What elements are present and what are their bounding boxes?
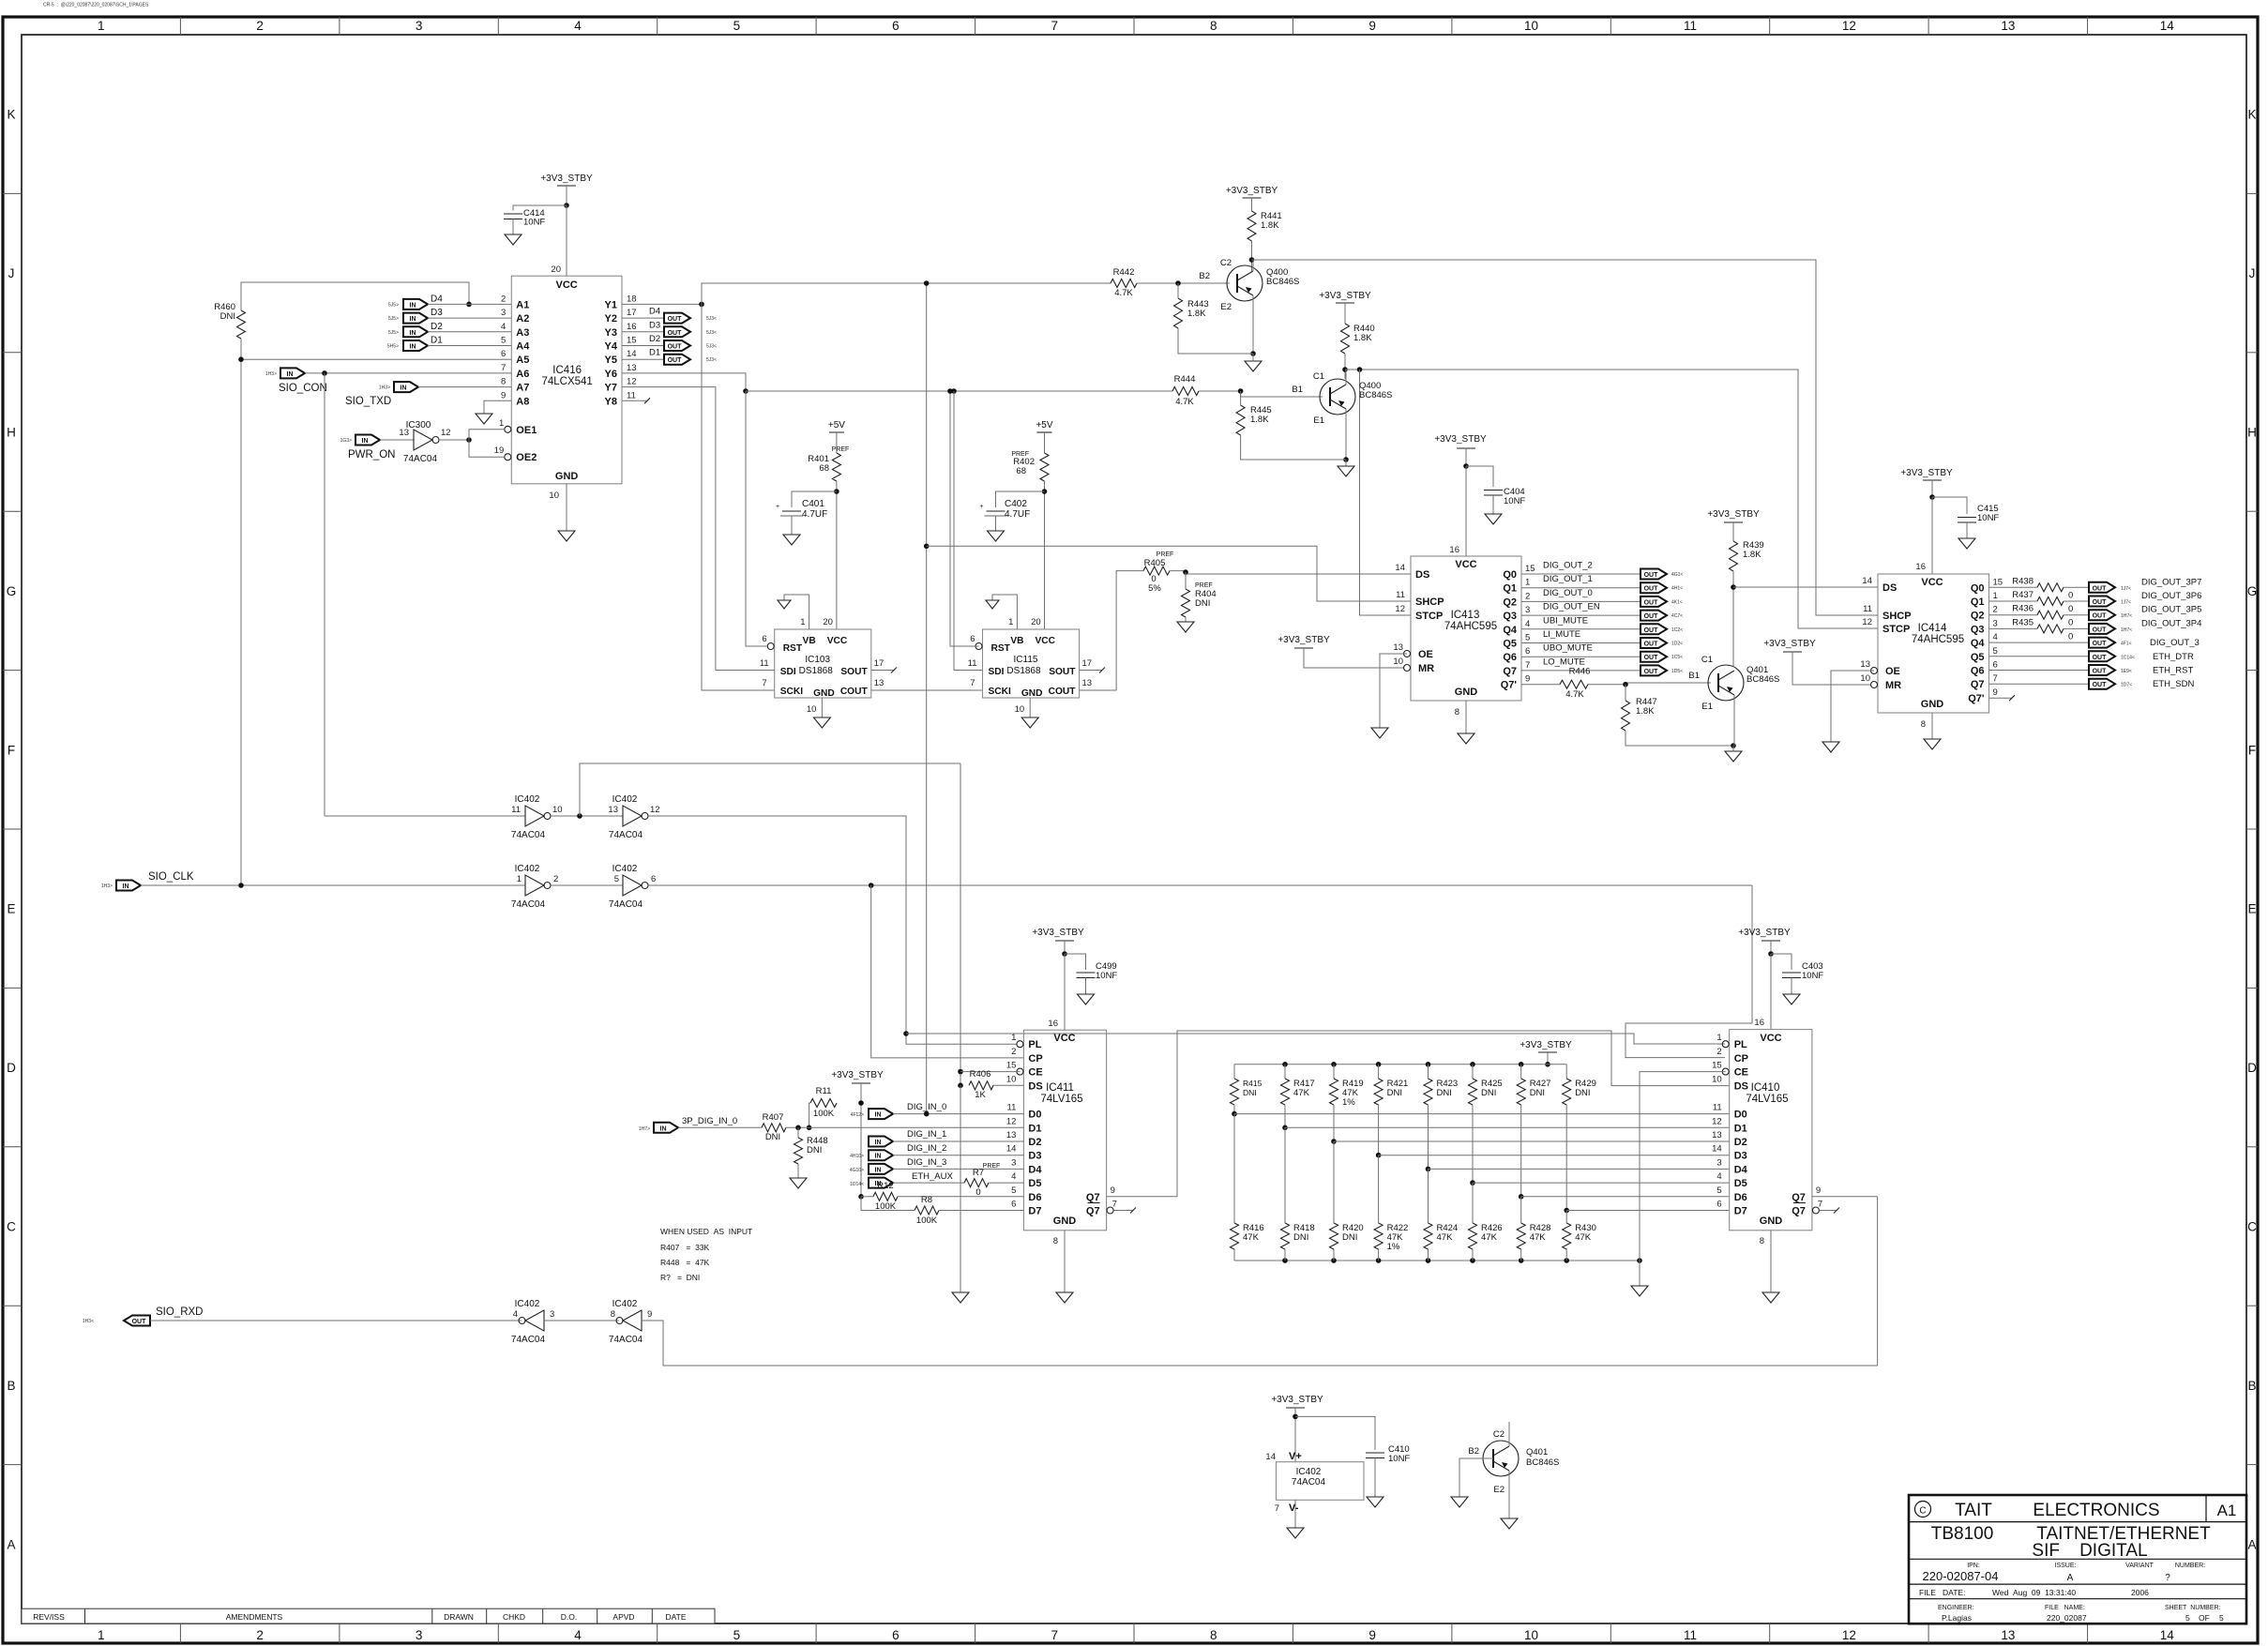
svg-text:10: 10 (1524, 19, 1538, 33)
svg-text:IC402: IC402 (612, 1299, 638, 1309)
svg-text:D6: D6 (1734, 1192, 1747, 1203)
svg-text:4H1<: 4H1< (1671, 586, 1683, 592)
column numbers top (98, 19, 2174, 33)
svg-text:OUT: OUT (1644, 627, 1659, 634)
wire CE latch column with R406 (958, 763, 1020, 1088)
svg-text:1D2<: 1D2< (1671, 642, 1683, 647)
svg-text:0: 0 (2068, 604, 2073, 614)
svg-text:H: H (2247, 426, 2257, 440)
svg-text:100K: 100K (813, 1109, 835, 1119)
svg-text:13: 13 (1393, 642, 1403, 653)
svg-text:Wed Aug 09 13:31:40: Wed Aug 09 13:31:40 (1992, 1588, 2076, 1597)
wire IC115 VB to ground step (992, 595, 1017, 629)
svg-text:1%: 1% (1342, 1097, 1355, 1108)
svg-text:4.7K: 4.7K (1114, 288, 1133, 298)
svg-text:CHKD: CHKD (503, 1612, 525, 1622)
svg-text:DNI: DNI (1195, 598, 1210, 609)
wire array row 1 to IC410 D1 (1285, 1126, 1730, 1128)
svg-text:1.8K: 1.8K (1636, 706, 1655, 717)
svg-text:CE: CE (1734, 1067, 1748, 1079)
ground below C410 (1367, 1497, 1383, 1507)
engineer row values (1942, 1613, 2224, 1623)
svg-text:A1: A1 (2217, 1502, 2237, 1519)
svg-text:ISSUE:: ISSUE: (2055, 1563, 2077, 1569)
resistor R426 47K pull-down (1469, 1183, 1503, 1261)
svg-text:10: 10 (807, 704, 817, 715)
resistor R7 0 PREF (964, 1163, 1000, 1198)
wire IC410 CE to array ground bus (1640, 1072, 1726, 1261)
svg-text:DIG_IN_1: DIG_IN_1 (907, 1129, 946, 1140)
svg-text:A2: A2 (516, 313, 529, 325)
wire IC115 COUT up to R405 (1080, 571, 1143, 690)
svg-text:18: 18 (627, 294, 637, 304)
wire R12 to D6 (898, 1196, 1023, 1198)
wire R446 to base node B1 (1588, 682, 1711, 687)
svg-text:11: 11 (1396, 590, 1405, 600)
wire SIO_CON to A6 (305, 370, 511, 376)
wire array row 0 to IC410 D0 (1234, 1113, 1730, 1115)
svg-text:17: 17 (874, 658, 885, 669)
svg-text:SHCP: SHCP (1415, 596, 1444, 608)
svg-text:2006: 2006 (2131, 1588, 2149, 1597)
wire Y1 column down to SCKI IC103 (702, 304, 775, 690)
resistor R447 1.8K (1622, 685, 1657, 731)
svg-text:DIG_IN_2: DIG_IN_2 (907, 1143, 946, 1154)
svg-text:IN: IN (410, 316, 416, 323)
IC416 GND pin wire to ground (558, 484, 575, 541)
svg-text:Q1: Q1 (1971, 596, 1985, 608)
ground at Q401 B2 (1451, 1497, 1468, 1507)
svg-text:7: 7 (1051, 1628, 1059, 1642)
svg-text:OUT: OUT (668, 357, 683, 364)
resistor R441 1.8K (1247, 211, 1282, 241)
capacitor C414 10NF (504, 208, 545, 234)
svg-text:+3V3_STBY: +3V3_STBY (1032, 928, 1084, 938)
svg-text:D4: D4 (1028, 1164, 1042, 1175)
resistor R429 DNI pull-up (1563, 1065, 1596, 1211)
node array row 0 junction (1232, 1111, 1237, 1117)
svg-text:5: 5 (1716, 1185, 1721, 1196)
power +3V3_STBY rail above IC414 (1900, 468, 1953, 497)
svg-text:ETH_RST: ETH_RST (2153, 666, 2193, 676)
svg-text:2: 2 (256, 19, 264, 33)
svg-text:4H10>: 4H10> (850, 1154, 864, 1159)
svg-text:DNI: DNI (1243, 1088, 1257, 1097)
svg-text:DNI: DNI (1575, 1088, 1590, 1098)
svg-text:CP: CP (1028, 1053, 1042, 1065)
svg-text:Y2: Y2 (605, 313, 617, 325)
svg-text:4G10>: 4G10> (850, 1168, 864, 1173)
svg-text:11: 11 (1713, 1103, 1722, 1113)
IC410 right pin names Q7 (1792, 1185, 1822, 1217)
svg-text:C: C (7, 1220, 16, 1234)
svg-text:ETH_DTR: ETH_DTR (2153, 652, 2194, 662)
svg-text:R407 = 33K: R407 = 33K (660, 1243, 710, 1252)
ground below C401 (783, 535, 800, 545)
svg-text:14: 14 (1006, 1144, 1017, 1155)
wire IC410 Q7' stub no-connect (1819, 1208, 1839, 1214)
svg-text:47K: 47K (1437, 1232, 1454, 1243)
svg-text:16: 16 (1915, 562, 1926, 572)
svg-text:1H3>: 1H3> (101, 883, 113, 889)
svg-text:G: G (7, 584, 17, 598)
svg-text:5J3<: 5J3< (706, 330, 717, 336)
svg-text:12: 12 (650, 805, 660, 815)
power +3V3_STBY rail above IC410 (1738, 928, 1791, 954)
svg-text:B2: B2 (1468, 1446, 1479, 1457)
svg-text:13: 13 (1712, 1130, 1722, 1140)
svg-text:10: 10 (1006, 1074, 1017, 1084)
svg-text:Q5: Q5 (1503, 639, 1517, 650)
svg-text:1.8K: 1.8K (1743, 550, 1761, 560)
svg-text:Y5: Y5 (605, 355, 617, 366)
svg-text:LI_MUTE: LI_MUTE (1543, 629, 1580, 640)
wire Q400 E1 emitter down to ground node (1343, 409, 1349, 462)
svg-text:8: 8 (1053, 1236, 1058, 1246)
svg-text:1: 1 (1993, 591, 1998, 601)
svg-text:ENGINEER:: ENGINEER: (1938, 1605, 1974, 1611)
svg-text:8: 8 (1210, 1628, 1217, 1642)
svg-text:DNI: DNI (1293, 1232, 1308, 1243)
svg-text:R437: R437 (2012, 590, 2034, 600)
wire R445 bottom to emitter node (1241, 391, 1346, 460)
svg-text:2: 2 (1716, 1047, 1721, 1057)
svg-text:OF: OF (2199, 1613, 2210, 1623)
svg-text:A: A (2247, 1537, 2256, 1551)
wire R407 to D1 IC411 (786, 1125, 1023, 1131)
svg-text:STCP: STCP (1415, 611, 1443, 622)
svg-text:47K: 47K (1481, 1232, 1498, 1243)
svg-text:10: 10 (549, 491, 559, 501)
svg-text:4.7K: 4.7K (1565, 689, 1584, 700)
ground below C414 (505, 234, 522, 245)
resistor R423 DNI pull-up (1424, 1065, 1458, 1170)
node array row 6 junction (1519, 1194, 1524, 1200)
svg-text:12: 12 (627, 377, 637, 387)
wire flag to R407 (678, 1126, 762, 1128)
svg-text:DS: DS (1415, 569, 1429, 581)
svg-text:15: 15 (1006, 1061, 1017, 1071)
power +5V rail for R401 (828, 420, 845, 453)
svg-text:16: 16 (627, 322, 637, 332)
svg-text:7: 7 (1993, 673, 1998, 684)
svg-text:COUT: COUT (1049, 687, 1077, 697)
svg-text:R448 = 47K: R448 = 47K (660, 1258, 710, 1267)
svg-text:74AC04: 74AC04 (511, 899, 546, 910)
svg-text:5J5>: 5J5> (388, 302, 399, 308)
svg-text:74LV165: 74LV165 (1040, 1094, 1082, 1105)
wire IC115 RST up to Y6 net (947, 388, 978, 646)
svg-text:10: 10 (552, 805, 563, 815)
svg-text:4K1<: 4K1< (1671, 599, 1683, 605)
svg-text:12: 12 (1842, 19, 1856, 33)
svg-text:3: 3 (1011, 1157, 1016, 1168)
svg-text:PL: PL (1734, 1039, 1747, 1050)
svg-text:PREF: PREF (832, 446, 850, 453)
inverter IC402 pins 8-9 (left facing) (609, 1299, 652, 1345)
svg-text:Q0: Q0 (1503, 569, 1517, 581)
svg-text:D4: D4 (1734, 1164, 1748, 1175)
resistor R416 47K pull-down (1231, 1114, 1264, 1261)
wire R11 left to D1 net (807, 1103, 812, 1130)
svg-text:OUT: OUT (1644, 655, 1659, 661)
power +3V3_STBY rail above IC411 (1032, 928, 1084, 954)
svg-text:OE1: OE1 (516, 425, 537, 436)
svg-text:Q7: Q7 (1086, 1192, 1100, 1203)
svg-text:D3: D3 (431, 308, 443, 318)
wire resistor array bottom bus to ground (1234, 1258, 1642, 1286)
svg-text:D5: D5 (1028, 1178, 1041, 1189)
svg-text:OUT: OUT (2093, 599, 2108, 606)
svg-text:9: 9 (1111, 1185, 1115, 1196)
svg-text:C: C (1919, 1506, 1926, 1517)
svg-text:74AC04: 74AC04 (403, 454, 438, 464)
wire R443 bottom to emitter node (1178, 283, 1253, 354)
svg-text:R444: R444 (1174, 374, 1196, 385)
svg-text:IC300: IC300 (406, 420, 431, 430)
svg-text:Q1: Q1 (1503, 583, 1517, 595)
svg-text:PL: PL (1028, 1039, 1041, 1050)
wire Y7 to SDI IC103 (622, 387, 775, 671)
svg-text:OE2: OE2 (516, 452, 537, 463)
wire R405 to DS IC413 (1170, 569, 1411, 575)
wire Q400 C1 collector up (1345, 370, 1347, 385)
resistor R425 DNI pull-up (1469, 1065, 1503, 1183)
svg-text:R11: R11 (816, 1086, 832, 1096)
wire R460 top to A1 column (241, 282, 469, 310)
svg-text:74AC04: 74AC04 (609, 899, 643, 910)
wire R8 to D7 (939, 1210, 1023, 1212)
svg-text:5J3<: 5J3< (706, 316, 717, 322)
resistor R404 DNI PREF (1182, 572, 1217, 617)
svg-text:+3V3_STBY: +3V3_STBY (1738, 928, 1791, 938)
svg-text:+5V: +5V (828, 420, 845, 430)
resistor R439 1.8K (1730, 540, 1764, 571)
wire between RXD inverters (544, 1320, 619, 1321)
svg-text:OUT: OUT (668, 344, 683, 351)
ground below C404 (1485, 514, 1502, 524)
wire IC414 OE to ground (1822, 671, 1874, 752)
svg-text:Q401: Q401 (1526, 1447, 1548, 1457)
svg-text:Q2: Q2 (1971, 611, 1985, 622)
wire ETH_AUX to R7 (893, 1182, 964, 1184)
IC411 right pin names Q7 (1086, 1185, 1117, 1217)
wire A8 to ground (484, 400, 511, 414)
svg-text:Q6: Q6 (1503, 652, 1517, 663)
svg-text:20: 20 (823, 617, 833, 627)
wire IC411 Q7 to DS IC410 (1107, 1031, 1730, 1197)
svg-text:1J7<: 1J7< (2121, 600, 2131, 606)
svg-text:5%: 5% (1148, 583, 1161, 594)
svg-text:STCP: STCP (1882, 624, 1910, 635)
svg-text:6: 6 (970, 634, 975, 644)
svg-text:F: F (2248, 743, 2256, 757)
svg-text:OUT: OUT (668, 330, 683, 337)
wire IC103 GND pin (813, 698, 830, 728)
svg-text:A5: A5 (516, 355, 529, 366)
svg-text:4: 4 (1993, 632, 1998, 642)
svg-text:6: 6 (1525, 646, 1530, 657)
svg-text:8: 8 (1455, 707, 1459, 717)
svg-text:C402: C402 (1005, 499, 1027, 509)
svg-text:8: 8 (611, 1309, 615, 1320)
row letters left (7, 108, 17, 1552)
svg-text:DS1868: DS1868 (1006, 666, 1041, 676)
svg-text:+3V3_STBY: +3V3_STBY (1707, 509, 1760, 520)
IC411 74LV165 shift register box (1023, 1019, 1106, 1246)
svg-text:DIG_IN_3: DIG_IN_3 (907, 1157, 946, 1168)
svg-text:IN: IN (875, 1167, 882, 1173)
svg-text:13: 13 (399, 428, 409, 438)
svg-text:13: 13 (627, 363, 637, 373)
svg-text:14: 14 (1862, 576, 1872, 586)
svg-text:IC103: IC103 (805, 655, 830, 665)
node array row 1 junction (1282, 1125, 1288, 1131)
svg-text:D2: D2 (431, 322, 443, 332)
svg-text:DIG_OUT_EN: DIG_OUT_EN (1543, 602, 1600, 612)
svg-text:10NF: 10NF (523, 218, 545, 228)
svg-text:7: 7 (1525, 660, 1530, 671)
svg-text:11: 11 (627, 390, 636, 400)
IC414 74AHC595 shift register box (1878, 562, 1989, 730)
title product TB8100 TAITNET/ETHERNET (1931, 1524, 2211, 1544)
svg-text:UBO_MUTE: UBO_MUTE (1543, 643, 1593, 654)
svg-text:2: 2 (256, 1628, 264, 1642)
svg-text:SIO_CLK: SIO_CLK (148, 871, 194, 883)
svg-text:1D5<: 1D5< (1671, 669, 1683, 674)
wire IC103 COUT to IC115 SCKI (871, 689, 983, 691)
svg-text:Q7: Q7 (1503, 666, 1517, 677)
svg-text:1D14<: 1D14< (850, 1182, 864, 1187)
svg-text:7: 7 (1051, 19, 1059, 33)
svg-text:A: A (7, 1537, 15, 1551)
svg-text:3: 3 (1716, 1157, 1721, 1168)
svg-text:Q7: Q7 (1792, 1192, 1806, 1203)
node array row 5 junction (1470, 1180, 1475, 1185)
svg-text:6: 6 (1716, 1200, 1721, 1210)
svg-text:Q7: Q7 (1971, 679, 1985, 690)
svg-text:2: 2 (553, 874, 558, 884)
svg-text:IC414: IC414 (1918, 623, 1947, 634)
svg-text:A8: A8 (516, 396, 529, 407)
svg-text:IN: IN (875, 1154, 882, 1160)
svg-text:D2: D2 (1028, 1137, 1041, 1148)
wire buffered clock to CP pins (648, 883, 1752, 888)
input flag PWR_ON (340, 435, 396, 461)
svg-text:74LCX541: 74LCX541 (541, 376, 592, 387)
svg-text:0: 0 (2068, 631, 2073, 642)
svg-text:4: 4 (574, 1628, 582, 1642)
wire DS chain horizontal to SHCP IC413 (927, 546, 1411, 601)
svg-text:Q5: Q5 (1971, 652, 1985, 663)
svg-text:OUT: OUT (1644, 599, 1659, 606)
revision strip REV/ISS AMENDMENTS (22, 1608, 715, 1623)
svg-text:Q7: Q7 (1086, 1206, 1100, 1217)
svg-text:RST: RST (991, 643, 1011, 654)
resistor R442 4.7K (1111, 267, 1137, 298)
svg-text:DS: DS (1882, 582, 1897, 594)
svg-text:VB: VB (1010, 636, 1023, 646)
svg-text:1D7<: 1D7< (2121, 683, 2132, 688)
power +3V3_STBY rail above R439 (1707, 509, 1760, 541)
wire Y6 branch down to RST IC103 (746, 391, 767, 646)
wire RXD from IC410 Q7 long return (642, 1197, 1878, 1366)
svg-text:12: 12 (1006, 1116, 1017, 1126)
resistor R420 DNI pull-down (1330, 1141, 1364, 1261)
svg-text:DNI: DNI (1387, 1088, 1402, 1098)
wire R441 to Q400 collector node (1249, 241, 1255, 271)
power +5V rail for R402 (1036, 420, 1052, 453)
svg-text:E: E (2247, 902, 2256, 916)
svg-text:47K: 47K (1530, 1232, 1547, 1243)
svg-text:R436: R436 (2012, 604, 2034, 614)
wire Q401 E2 emitter to ground (1508, 1471, 1510, 1518)
title company name TAIT ELECTRONICS (1955, 1501, 2159, 1520)
svg-text:OUT: OUT (2093, 669, 2108, 675)
svg-text:4: 4 (1525, 619, 1530, 629)
resistor R406 1K (969, 1069, 993, 1100)
wire DIG_IN_1 to D2 (893, 1140, 1023, 1142)
svg-text:B1: B1 (1292, 385, 1303, 395)
wire IC414 Q7' stub no-connect (1989, 695, 2016, 701)
svg-text:4G1<: 4G1< (1671, 572, 1683, 578)
resistor R401 68 PREF (808, 446, 849, 481)
svg-text:CE: CE (1028, 1067, 1042, 1079)
svg-text:?: ? (2165, 1573, 2170, 1583)
svg-text:2: 2 (1525, 591, 1530, 601)
svg-text:D: D (7, 1061, 16, 1075)
wire CE column to ground (952, 1085, 969, 1303)
svg-text:C2: C2 (1493, 1429, 1504, 1440)
svg-text:K: K (7, 108, 15, 122)
svg-text:IN: IN (287, 371, 294, 378)
input flag SIO_CLK (101, 871, 194, 891)
svg-text:20: 20 (551, 264, 561, 275)
svg-text:8: 8 (1921, 719, 1926, 730)
svg-text:DIG_OUT_3P4: DIG_OUT_3P4 (2141, 618, 2201, 628)
svg-text:R446: R446 (1569, 667, 1591, 677)
svg-text:D3: D3 (1028, 1151, 1041, 1162)
wire IC103 VB to ground step (784, 595, 809, 629)
svg-text:74AC04: 74AC04 (609, 1335, 643, 1345)
svg-text:+3V3_STBY: +3V3_STBY (540, 174, 593, 184)
svg-text:+3V3_STBY: +3V3_STBY (1226, 186, 1278, 196)
svg-text:16: 16 (1754, 1018, 1764, 1028)
input flag DIG_IN_0 (851, 1102, 947, 1119)
svg-text:3: 3 (1525, 605, 1530, 615)
svg-text:1C2<: 1C2< (1671, 627, 1683, 633)
svg-text:OUT: OUT (1644, 586, 1659, 593)
svg-text:10NF: 10NF (1096, 971, 1117, 981)
wire SIO_CLK to inverters (141, 883, 525, 888)
svg-text:C401: C401 (802, 499, 824, 509)
svg-text:4.7K: 4.7K (1175, 397, 1194, 407)
IPN row labels (1967, 1563, 2205, 1569)
svg-text:16: 16 (1449, 545, 1459, 555)
svg-text:K: K (2247, 108, 2256, 122)
svg-text:12: 12 (1842, 1628, 1856, 1642)
svg-text:12: 12 (1395, 604, 1405, 614)
svg-text:2: 2 (1993, 605, 1998, 615)
svg-text:IN: IN (401, 385, 407, 392)
svg-text:A1: A1 (516, 299, 529, 310)
wire IC402 V- to ground (1294, 1500, 1296, 1528)
wire Q401 emitter to ground (1725, 695, 1742, 762)
svg-text:10NF: 10NF (1977, 513, 1999, 523)
svg-text:D3: D3 (1734, 1151, 1747, 1162)
svg-text:D4: D4 (649, 307, 660, 317)
wire R406 to DS IC411 (993, 1084, 1023, 1086)
